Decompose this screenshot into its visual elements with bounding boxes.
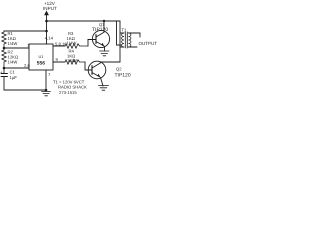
resistor R2 <box>2 48 6 68</box>
wire to IC pins 2,6 <box>4 67 29 69</box>
transistor Q2 <box>88 61 106 79</box>
wire Q1 collector <box>103 21 105 32</box>
svg-text:TIP120: TIP120 <box>115 72 131 78</box>
svg-text:1µF: 1µF <box>10 75 18 80</box>
node +12V input label <box>43 1 57 11</box>
wire IC output to R4 <box>53 61 65 63</box>
svg-text:2,6: 2,6 <box>24 63 30 68</box>
node junction dot D <box>3 67 6 70</box>
wire IC pin 7 down <box>45 70 47 90</box>
wire secondary bottom lead <box>129 46 138 48</box>
wire left rail <box>4 30 47 32</box>
wire Q2 emitter to ground <box>101 78 104 87</box>
transformer T1 secondary winding <box>129 33 131 47</box>
wire +12V rail top <box>47 20 121 22</box>
svg-text:C1: C1 <box>10 70 16 75</box>
node junction dot A <box>45 20 48 23</box>
svg-text:1/4W: 1/4W <box>8 41 18 46</box>
svg-text:T1: T1 <box>122 28 128 33</box>
wire primary bottom <box>120 46 124 48</box>
resistor R1 <box>2 31 6 48</box>
+12V input arrow <box>46 14 48 21</box>
wire R3 to Q1 base <box>88 40 93 47</box>
wire rail to primary tap <box>117 21 122 45</box>
wire primary top lead <box>120 21 124 62</box>
svg-text:TIP120: TIP120 <box>92 27 108 33</box>
svg-text:INPUT: INPUT <box>43 6 57 11</box>
transformer T1 primary winding <box>122 33 124 47</box>
ground at Q1 <box>100 51 110 56</box>
capacitor C1 <box>3 68 5 74</box>
resistor R3 <box>65 44 88 48</box>
wire R4 to Q2 base <box>85 62 89 70</box>
resistor R4 <box>65 60 85 64</box>
svg-text:U1: U1 <box>39 54 44 59</box>
transistor Q1 <box>92 30 109 47</box>
node junction dot C <box>3 47 6 50</box>
svg-text:556: 556 <box>37 61 45 67</box>
ground at Q2 <box>99 86 109 91</box>
svg-text:RADIO SHACK: RADIO SHACK <box>58 85 87 90</box>
svg-text:1/4W: 1/4W <box>67 41 77 46</box>
svg-text:OUTPUT: OUTPUT <box>139 41 158 46</box>
svg-text:1/4W: 1/4W <box>67 58 77 63</box>
wire bottom rail <box>4 89 46 91</box>
node junction dot E <box>45 89 48 92</box>
wire IC output to R3 <box>53 45 65 47</box>
node junction dot B <box>45 30 48 33</box>
wire from rail down to IC top <box>46 21 48 44</box>
svg-text:1/4W: 1/4W <box>8 60 18 65</box>
svg-text:4,14: 4,14 <box>45 36 54 41</box>
wire Q1 emitter to ground <box>104 47 106 52</box>
transformer T1 core <box>125 32 127 48</box>
node junction dot F <box>103 20 105 22</box>
svg-text:Q2: Q2 <box>116 67 122 72</box>
svg-text:273-1515: 273-1515 <box>59 90 77 95</box>
wire to IC pin 1 <box>4 47 29 49</box>
IC U1 556 dual timer <box>29 44 53 70</box>
wire Q2 collector <box>100 62 120 63</box>
ground at pin 7 <box>42 92 51 96</box>
caption transformer note <box>53 80 87 96</box>
wire secondary top lead <box>129 33 141 37</box>
